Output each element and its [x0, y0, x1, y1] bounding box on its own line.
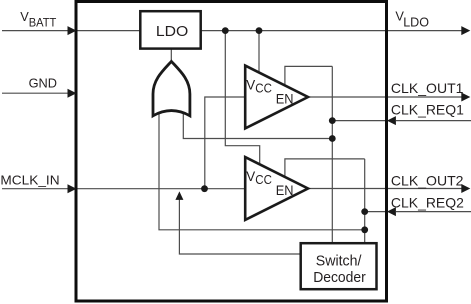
- svg-text:MCLK_IN: MCLK_IN: [0, 172, 59, 187]
- wire MCLK_IN input: [2, 188, 70, 190]
- wire LDO output rail to V_LDO: [200, 30, 386, 32]
- arrow GND: [68, 89, 77, 98]
- svg-text:LDO: LDO: [156, 24, 188, 40]
- svg-text:GND: GND: [29, 75, 57, 90]
- wire V_BATT input: [2, 30, 70, 32]
- node dot MCLK junction: [201, 185, 208, 192]
- buffer U2: [245, 157, 308, 220]
- OR gate U3: [153, 61, 190, 115]
- wire CLK_REQ2 net vertical to Switch/Decoder: [364, 159, 366, 243]
- wire CLK_REQ1 inside: [332, 120, 386, 122]
- node dot CLK_REQ2: [361, 208, 368, 215]
- svg-text:CLK_REQ1: CLK_REQ1: [391, 103, 464, 118]
- svg-text:CLK_OUT1: CLK_OUT1: [391, 81, 464, 96]
- node dot REQ1/OR2: [329, 135, 336, 142]
- wire LDO enable from OR gate output: [170, 49, 172, 62]
- wire buffer U1 input from MCLK_IN: [205, 97, 246, 189]
- svg-text:LDO: LDO: [403, 15, 429, 29]
- arrow CLK_REQ2 in: [387, 207, 396, 216]
- outer box: [76, 2, 387, 302]
- wire EN2 loop to CLK_REQ2: [285, 159, 365, 177]
- wire CLK_REQ2 inside: [365, 211, 386, 213]
- wire GND input: [2, 92, 70, 94]
- wire VCC drop to buffer U2: [225, 31, 259, 166]
- arrow switch control up: [175, 191, 183, 200]
- svg-text:CLK_REQ2: CLK_REQ2: [391, 196, 464, 211]
- wire CLK_OUT2 output: [387, 188, 463, 190]
- wire EN1 loop to CLK_REQ1: [285, 66, 332, 85]
- svg-text:CLK_OUT2: CLK_OUT2: [391, 173, 464, 188]
- Switch/Decoder box: [301, 243, 377, 289]
- svg-text:Decoder: Decoder: [313, 270, 366, 286]
- wire MCLK_IN to buffer U2 input: [77, 188, 246, 190]
- wire CLK_OUT2 from buffer U2: [306, 188, 386, 190]
- wire CLK_REQ1 input: [396, 120, 471, 122]
- wire CLK_OUT1 output: [387, 96, 463, 98]
- svg-text:V: V: [246, 77, 255, 92]
- wire V_LDO output: [387, 30, 463, 32]
- arrow CLK_OUT1 out: [461, 93, 470, 102]
- wire CLK_OUT1 from buffer U1: [306, 96, 386, 98]
- arrow V_BATT: [68, 26, 77, 35]
- arrow CLK_OUT2 out: [461, 184, 470, 193]
- buffer U1: [245, 66, 308, 129]
- svg-text:EN: EN: [276, 91, 294, 106]
- wire VCC drop to buffer U1: [258, 31, 260, 74]
- wire CLK_REQ1 net vertical to Switch/Decoder: [331, 66, 333, 242]
- arrow V_LDO out: [461, 26, 470, 35]
- arrow MCLK_IN: [68, 184, 77, 193]
- wire OR input 1 from CLK_REQ2 net: [159, 111, 365, 230]
- wire CLK_REQ2 input: [396, 211, 471, 213]
- node dot LDO rail 1: [222, 27, 229, 34]
- arrow CLK_REQ1 in: [387, 116, 396, 125]
- node dot CLK_REQ1: [329, 117, 336, 124]
- svg-text:BATT: BATT: [29, 16, 57, 30]
- node dot REQ2/OR1: [361, 226, 368, 233]
- wire switch control from Switch/Decoder: [179, 199, 300, 254]
- node dot LDO rail 2: [256, 27, 263, 34]
- svg-text:V: V: [246, 169, 255, 184]
- wire OR input 2 from CLK_REQ1 net: [183, 111, 332, 139]
- svg-text:CC: CC: [255, 173, 272, 187]
- svg-text:CC: CC: [255, 81, 272, 95]
- svg-text:Switch/: Switch/: [316, 253, 363, 269]
- wire V_BATT to LDO: [77, 30, 140, 32]
- svg-text:EN: EN: [276, 183, 294, 198]
- LDO box: [140, 11, 200, 48]
